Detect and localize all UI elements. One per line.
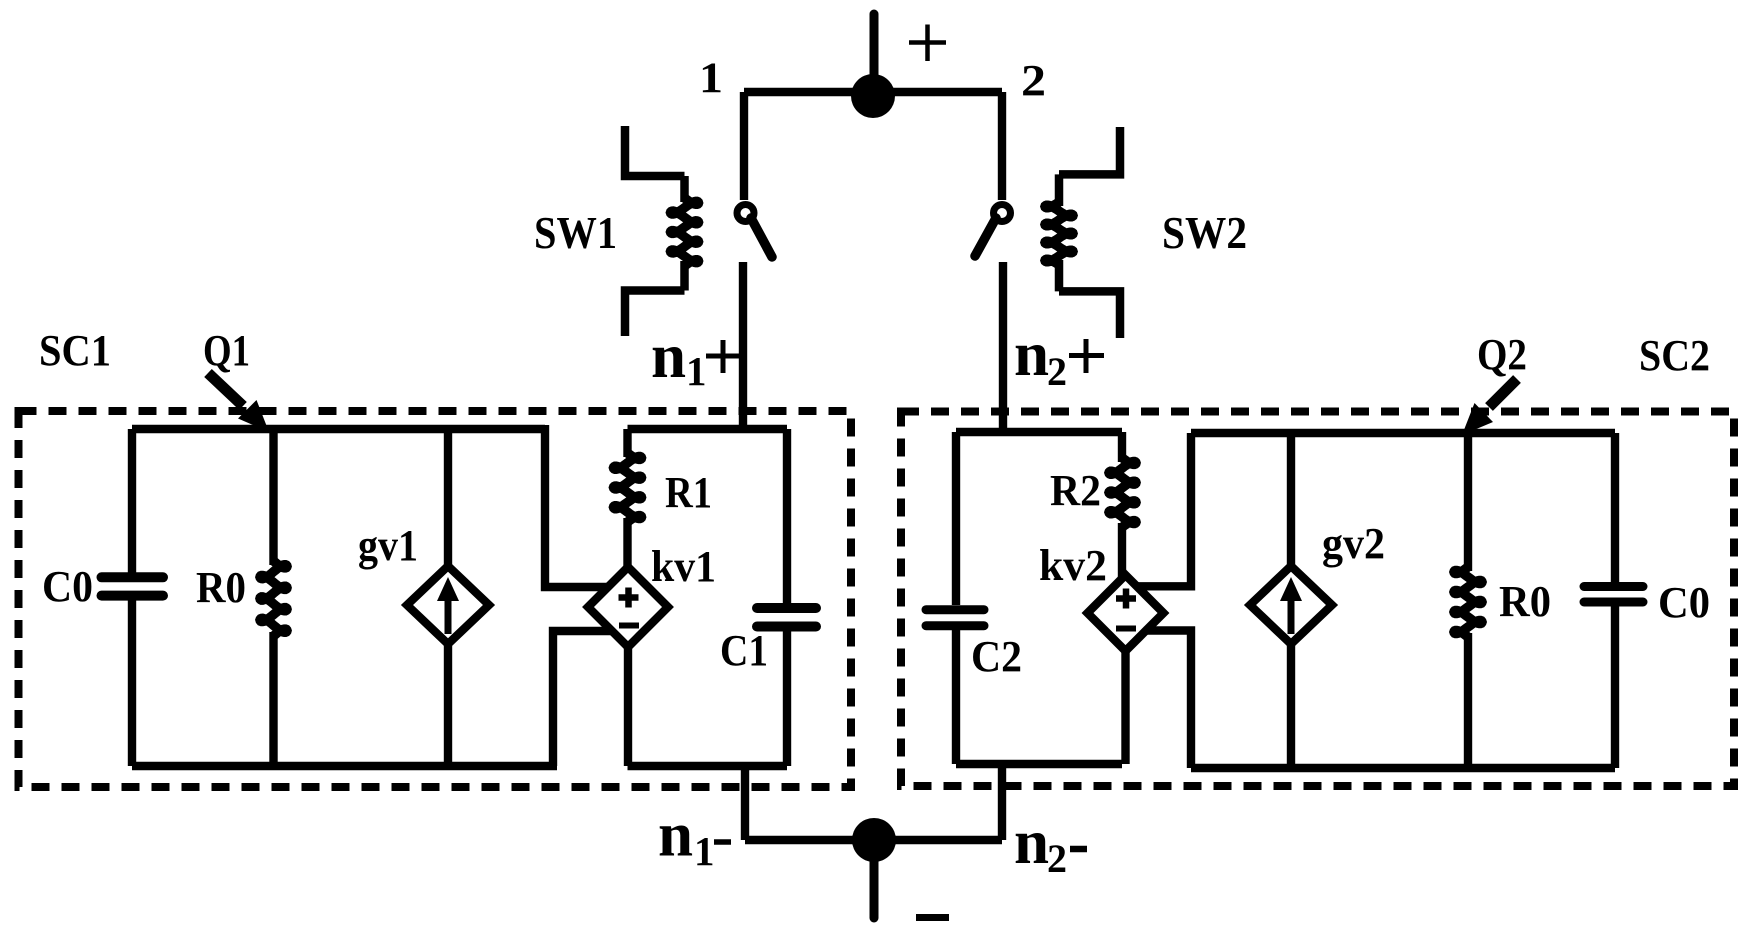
wire switch1 lower contact [739,262,747,429]
svg-text:2: 2 [1047,836,1067,881]
svg-text:1: 1 [699,55,723,102]
svg-text:n: n [1014,319,1049,389]
svg-text:C0: C0 [1658,578,1710,627]
wire top horizontal bus [744,88,1002,96]
wire R2 top column [1118,432,1126,462]
capacitor C1 [757,429,816,766]
coil SW2 [1045,127,1120,338]
voltage source kv1 [588,567,668,647]
wire top terminal vertical [870,14,879,96]
wire switch2 riser [998,92,1006,200]
wire bottom terminal tail [870,851,879,918]
wire SC2 big-loop top [1191,429,1615,437]
svg-text:gv2: gv2 [1322,519,1385,568]
current source gv2 [1250,433,1332,768]
minus terminal label [916,914,949,921]
wire n1- drop [741,766,749,840]
svg-text:R1: R1 [665,468,712,517]
wire R2 to kv2 [1118,523,1126,577]
switch S2 blade [975,218,996,256]
switch S1 blade [751,218,772,257]
capacitor C2 [926,432,984,764]
wire SC2 stub upper (from kv2) [1136,433,1191,586]
svg-text:kv2: kv2 [1039,541,1107,590]
resistor R2 [1109,458,1136,527]
svg-text:SW2: SW2 [1162,208,1247,258]
switch S1 pivot circle [737,205,754,222]
resistor R0 (SC2) [1454,433,1482,768]
current source gv1 [407,429,489,766]
capacitor C0 (SC2) [1584,433,1643,768]
wire SC1 big-loop bottom [132,762,557,770]
svg-text:2: 2 [1021,56,1046,105]
arrow Q1 [208,373,269,432]
svg-text:C0: C0 [42,562,93,611]
switch S2 pivot circle [994,205,1011,222]
wire kv2 bottom column [1121,651,1129,764]
svg-text:n: n [1014,807,1049,877]
coil SW1 [625,126,699,336]
svg-text:C2: C2 [971,632,1022,681]
box SC2 dashed boundary [901,412,1734,787]
svg-text:n: n [658,800,693,870]
node n1+ label [651,321,740,394]
svg-text:Q2: Q2 [1477,330,1527,379]
svg-text:SW1: SW1 [534,208,617,258]
wire SC1 stub upper (to kv1) [545,425,610,587]
node n2+ label [1014,319,1104,394]
node top junction [851,74,895,118]
wire SC1 small-loop bottom [628,762,788,770]
wire SC1 big-loop top [132,425,545,433]
wire SC1 small-loop top [628,425,788,433]
wire SC2 big-loop bottom [1191,764,1615,772]
wire SC2 small-loop bottom [956,760,1122,768]
wire kv1 bottom column [624,647,632,766]
resistor R1 [614,453,642,522]
node bottom junction [852,818,896,862]
svg-text:gv1: gv1 [358,521,418,570]
svg-text:R0: R0 [1499,577,1551,626]
box SC1 dashed boundary [19,411,852,787]
svg-text:R2: R2 [1050,466,1101,515]
wire SC2 stub lower (from kv2) [1146,631,1191,769]
svg-text:n: n [651,321,686,391]
svg-text:1: 1 [694,828,715,874]
svg-text:C1: C1 [720,626,768,675]
arrow Q2 [1462,379,1517,435]
svg-text:Q1: Q1 [203,326,250,375]
svg-text:kv1: kv1 [651,542,716,591]
wire switch1 riser [740,92,748,200]
wire switch2 lower contact [999,262,1007,432]
node n2- label [1014,807,1087,881]
wire SC2 small-loop top [956,428,1122,436]
node n1- label [658,800,731,875]
wire bottom bus [745,836,1002,844]
plus terminal label [909,25,946,62]
svg-text:2: 2 [1047,349,1067,394]
capacitor C0 (SC1) [102,429,164,766]
resistor R0 (SC1) [260,429,287,766]
svg-text:SC2: SC2 [1639,331,1710,380]
voltage source kv2 [1088,575,1164,651]
wire R1 to kv1 [623,518,631,568]
svg-text:SC1: SC1 [39,326,111,375]
wire R1 top column [623,429,631,457]
wire n2- drop [998,764,1006,840]
svg-text:1: 1 [686,348,707,394]
wire SC1 stub lower (from kv1) [553,631,611,766]
svg-text:R0: R0 [196,563,246,612]
